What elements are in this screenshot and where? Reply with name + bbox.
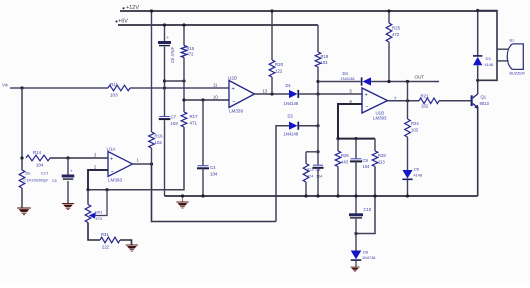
svg-text:−: − [111, 170, 114, 176]
svg-text:1N4148: 1N4148 [284, 101, 299, 106]
wire OUT net y=81.5 [318, 81, 361, 83]
svg-text:R16: R16 [155, 134, 164, 139]
zener D6 [355, 234, 357, 251]
svg-text:103: 103 [411, 128, 419, 133]
capacitor C5 [62, 175, 75, 178]
svg-text:U2D: U2D [228, 76, 238, 81]
svg-text:D5: D5 [414, 167, 420, 172]
svg-text:BUZZER: BUZZER [510, 72, 525, 76]
resistor R28 [374, 139, 376, 151]
capacitor C8 [317, 152, 319, 165]
svg-text:D2: D2 [288, 114, 294, 119]
svg-text:C5: C5 [52, 179, 57, 183]
wire R31 to ground [120, 240, 132, 245]
resistor R17 [181, 112, 187, 127]
wire U1B -in [338, 104, 362, 139]
svg-text:+: + [70, 169, 73, 174]
svg-text:11: 11 [213, 82, 218, 87]
svg-text:9013: 9013 [480, 101, 490, 106]
svg-text:104: 104 [316, 175, 322, 179]
potentiometer VR1 [85, 205, 91, 223]
wire Q1 emitter down [477, 108, 479, 196]
ground G2 [62, 204, 74, 210]
svg-text:−: − [232, 99, 235, 105]
svg-text:U1A: U1A [107, 147, 117, 152]
wire R23 top lead [305, 152, 307, 164]
svg-text:R11: R11 [110, 82, 119, 87]
svg-text:10: 10 [213, 94, 218, 99]
svg-text:102: 102 [421, 104, 429, 109]
wire buzzer stubs [497, 48, 509, 50]
wire pot wiper [95, 190, 107, 216]
svg-text:LM339: LM339 [229, 109, 243, 114]
svg-text:103: 103 [110, 93, 118, 98]
resistor R21 [419, 98, 439, 104]
wire pull-up x=389 [388, 11, 390, 23]
resistor R14 [26, 155, 50, 161]
svg-text:1N4748: 1N4748 [362, 256, 375, 260]
svg-text:Q1: Q1 [481, 95, 487, 100]
wire R21 to Q1 base [439, 100, 471, 102]
wire pull-up x=272 [271, 11, 273, 60]
svg-text:D6: D6 [363, 250, 369, 255]
svg-text:472: 472 [392, 32, 400, 37]
svg-text:R28: R28 [378, 153, 386, 158]
svg-text:+: + [110, 157, 113, 163]
svg-text:C4: C4 [210, 165, 216, 170]
wire x=164.5 to gnd bus [164, 120, 166, 196]
capacitor C4 [198, 165, 209, 167]
svg-text:+: + [167, 35, 170, 40]
svg-text:443: 443 [341, 160, 349, 165]
svg-text:104: 104 [210, 172, 218, 177]
svg-text:102: 102 [155, 140, 163, 145]
resistor R25 [386, 23, 392, 42]
wire U1B out [388, 100, 420, 102]
svg-text:472: 472 [187, 52, 195, 57]
wire x=151.5 from +12V [151, 11, 153, 132]
wire tee y=81 [165, 80, 185, 82]
svg-text:4148: 4148 [414, 174, 422, 178]
resistor R31 [100, 237, 120, 243]
svg-text:0.1R1%2200pF: 0.1R1%2200pF [24, 179, 50, 183]
ground G4 [126, 245, 138, 251]
op-amp U1A [108, 152, 133, 177]
diode D3 [477, 11, 479, 57]
svg-text:R14: R14 [33, 150, 42, 155]
svg-text:R31: R31 [101, 232, 109, 237]
wire D2 branch [276, 126, 289, 222]
svg-text:+12V: +12V [126, 5, 139, 11]
resistor R24 [405, 119, 411, 137]
svg-text:−: − [365, 105, 368, 111]
wire x=203 down [202, 100, 204, 166]
buzzer B1 [507, 44, 523, 70]
svg-text:C9: C9 [363, 158, 369, 163]
svg-text:103: 103 [171, 121, 179, 126]
svg-text:471: 471 [190, 121, 198, 126]
wire main input y=88 [10, 87, 108, 89]
svg-text:R25: R25 [392, 26, 401, 31]
wire Q1 collector up [477, 80, 479, 94]
+6V rail [118, 24, 318, 26]
svg-text:104: 104 [363, 164, 371, 169]
svg-text:OUT: OUT [415, 75, 425, 80]
wire buzzer loop [478, 11, 497, 81]
wire x=407.5 OUT link [407, 82, 409, 120]
wire pot top [87, 190, 89, 205]
wire pot bottom [88, 223, 100, 241]
svg-text:R19: R19 [321, 54, 329, 59]
op-amp U2D [229, 81, 255, 108]
op-amp U1B [362, 88, 388, 113]
resistor R11 [108, 85, 130, 91]
capacitor C7 [159, 116, 170, 118]
wire -in bus y=138.6 [338, 138, 375, 140]
svg-text:122: 122 [275, 69, 283, 74]
svg-text:2B: 2B [25, 171, 30, 176]
resistor R23 [303, 164, 309, 182]
wire R14 to U1A +in [50, 157, 108, 159]
svg-text:473: 473 [96, 217, 102, 221]
ground G1 [17, 208, 31, 215]
capacitor C10 [349, 213, 363, 216]
diode D1 [289, 90, 298, 98]
svg-text:R21: R21 [421, 94, 430, 99]
wire x=375 down to jog [356, 167, 375, 234]
svg-text:103: 103 [321, 60, 329, 65]
transistor Q1 [471, 95, 473, 106]
wire x=184 from +6V [183, 25, 185, 46]
wire U1A out [133, 163, 152, 165]
wire x=184 down to wire A [88, 127, 184, 190]
diode D5 [402, 170, 412, 179]
wire x=318 from +6V [317, 25, 319, 52]
wire ground bus y=196 [165, 195, 478, 197]
svg-text:4148: 4148 [485, 63, 493, 67]
svg-text:R24: R24 [411, 121, 419, 126]
svg-text:+: + [365, 93, 368, 99]
resistor R16 [149, 132, 155, 148]
capacitor C9 [355, 139, 357, 159]
svg-text:C6 47uF: C6 47uF [170, 46, 175, 63]
resistor R26 [337, 139, 339, 151]
svg-text:R26: R26 [341, 153, 349, 158]
capacitor C6 [158, 41, 171, 44]
svg-text:R15: R15 [187, 46, 195, 51]
wire input node down x=22 [21, 88, 23, 170]
svg-text:+: + [232, 87, 235, 93]
svg-text:Vin: Vin [2, 83, 9, 88]
wire U1A -in [88, 170, 108, 190]
wire U2D out [255, 93, 290, 95]
capacitor C10 [355, 196, 357, 213]
wire R13 to ground [21, 188, 23, 208]
svg-text:13: 13 [263, 88, 268, 93]
svg-text:+6V: +6V [118, 19, 128, 25]
svg-text:LM393: LM393 [373, 116, 387, 121]
resistor R13 [19, 170, 25, 188]
svg-text:VR1: VR1 [95, 211, 102, 215]
+12V rail [120, 10, 497, 12]
svg-text:R20: R20 [275, 62, 284, 67]
diode D2 [289, 122, 298, 130]
svg-text:474: 474 [307, 175, 313, 179]
svg-text:1N4148: 1N4148 [284, 132, 299, 137]
ground G5 [350, 267, 359, 272]
wire RC stub [306, 151, 318, 153]
wire D1 to node [299, 93, 362, 95]
svg-text:113: 113 [378, 160, 385, 165]
svg-text:LM393: LM393 [108, 178, 122, 183]
svg-text:C7: C7 [171, 115, 177, 120]
svg-text:R23: R23 [307, 168, 314, 172]
svg-text:104: 104 [36, 163, 44, 168]
svg-text:D1: D1 [286, 83, 292, 88]
resistor R19 [315, 52, 321, 67]
svg-text:D3: D3 [486, 56, 492, 61]
wire U1A out down and right y=221.5 [152, 164, 277, 222]
svg-text:C17: C17 [41, 171, 49, 176]
wire x=164.5 cap to main [164, 47, 166, 117]
resistor R20 [269, 60, 275, 77]
svg-text:222: 222 [102, 245, 110, 250]
svg-text:R17: R17 [190, 114, 199, 119]
ground G3 [182, 196, 184, 202]
wire cap branch x=68 [67, 158, 69, 175]
diode D4 [363, 77, 372, 85]
svg-text:C10: C10 [364, 207, 372, 212]
wire y=100 to U2D -in [184, 99, 229, 101]
wire x=164.5 from +6V [164, 25, 166, 41]
svg-text:B1: B1 [510, 39, 515, 43]
resistor R15 [181, 46, 187, 58]
svg-text:1N4148: 1N4148 [341, 76, 356, 81]
